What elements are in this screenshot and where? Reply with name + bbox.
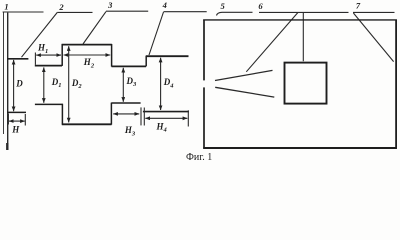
dimension H2 arrow (64, 54, 111, 56)
chamber box left edge upper (203, 20, 205, 81)
screen square 6 (285, 63, 327, 104)
trough bottom (62, 123, 112, 125)
H extension tick right (24, 114, 26, 126)
svg-text:D1: D1 (51, 77, 62, 89)
dimension H4 arrow (145, 117, 187, 119)
leader 3 diagonal (83, 12, 106, 44)
leader line 6 (259, 11, 349, 13)
trough right wall (110, 103, 112, 125)
step 4 left edge (145, 56, 147, 67)
svg-text:H1: H1 (37, 43, 48, 55)
leader line 4 (164, 11, 207, 13)
dimension D1 arrow (43, 67, 45, 102)
step 2 top surface (35, 65, 62, 67)
step 1 bottom line (7, 111, 26, 113)
leader 7a diagonal to right wall (353, 13, 393, 62)
dimension D4 arrow (160, 58, 162, 110)
svg-text:D: D (15, 79, 23, 89)
svg-text:D4: D4 (163, 77, 175, 89)
svg-text:6: 6 (258, 1, 263, 11)
leader 2 diagonal (22, 12, 58, 57)
dimension D2 arrow (68, 46, 70, 122)
step 3 bottom line (111, 102, 140, 104)
chamber box right edge (395, 20, 397, 149)
step 4 bottom line (143, 111, 189, 113)
plate 1 wall (7, 13, 9, 150)
step 3 top surface (112, 65, 147, 67)
H1 extension tick (34, 53, 36, 65)
svg-text:Фиг. 1: Фиг. 1 (186, 152, 212, 163)
leader 1 vertical (3, 12, 5, 134)
svg-text:1: 1 (4, 1, 8, 11)
dimension H arrow (9, 120, 25, 122)
svg-text:H3: H3 (124, 125, 136, 137)
svg-text:3: 3 (107, 0, 113, 10)
trough left wall (61, 104, 63, 125)
plate 1 wall bottom thick end (6, 143, 8, 150)
svg-text:H2: H2 (83, 57, 95, 69)
chamber box top edge (203, 19, 397, 21)
svg-text:5: 5 (220, 1, 225, 11)
beam lower ray (215, 87, 274, 97)
leader 6b vertical to square (302, 13, 304, 61)
step 2 bottom line (35, 103, 63, 105)
leader 6a diagonal to beam (246, 13, 297, 72)
svg-text:H4: H4 (156, 121, 168, 133)
H4 extension tick left (143, 108, 145, 126)
block 3 top surface (62, 44, 112, 46)
svg-text:4: 4 (162, 0, 167, 10)
H4 extension tick right (187, 110, 189, 126)
leader line 2 (57, 11, 92, 13)
dimension H1 arrow (36, 54, 61, 56)
dimension D arrow (13, 60, 15, 111)
step 1 top surface (7, 58, 28, 60)
H3 extension tick right (140, 107, 142, 125)
leader line 5 (217, 12, 253, 15)
svg-text:D2: D2 (71, 78, 83, 90)
svg-text:D3: D3 (126, 76, 138, 88)
chamber box left edge lower (203, 87, 205, 148)
leader line 3 (106, 10, 148, 12)
dimension D3 arrow (122, 68, 124, 102)
leader line 1 (3, 11, 44, 13)
beam upper ray (215, 70, 273, 80)
chamber box bottom edge (203, 147, 397, 149)
dimension H3 arrow (113, 113, 139, 115)
leader 4 diagonal (149, 12, 164, 55)
block 3 left edge (61, 44, 63, 66)
svg-text:7: 7 (356, 0, 361, 10)
block 3 right edge (111, 44, 113, 67)
step 4 top surface (146, 55, 189, 57)
leader line 7 (353, 11, 395, 13)
svg-text:2: 2 (58, 2, 64, 12)
H extension tick left (7, 114, 9, 125)
svg-text:H: H (11, 125, 20, 135)
